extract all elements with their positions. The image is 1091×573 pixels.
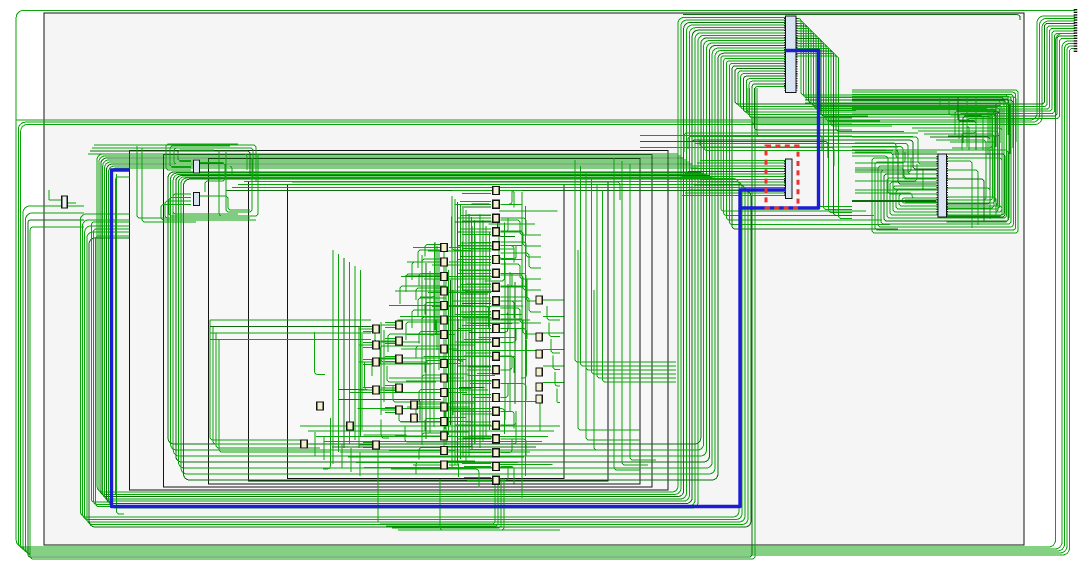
cell instance A5	[493, 242, 499, 250]
cell instance F5	[536, 383, 542, 391]
wire bundle right cluster extra rings	[886, 150, 1008, 222]
cell instance T3 (left edge)	[62, 196, 68, 208]
cell instance A20	[493, 449, 499, 457]
wire bundle cluster column stubs	[389, 188, 526, 484]
cell instance A14	[493, 366, 499, 374]
wire left edge vertical net	[117, 174, 125, 514]
cell instance A3	[493, 214, 499, 222]
wire bundle fan to cluster bridges	[684, 88, 918, 152]
cell instance B7	[441, 331, 447, 339]
module level-5 boundary	[249, 182, 609, 482]
wire bundle right cluster left feeds	[852, 137, 937, 194]
wire bundle below cluster drops	[378, 445, 560, 530]
cell instance A9	[493, 297, 499, 305]
wire right of blue vertical	[115, 177, 129, 495]
cell instance B8	[441, 345, 447, 353]
cell instance B13	[441, 418, 447, 426]
wire tiny cell stubs	[49, 190, 76, 203]
cell instance A7	[493, 269, 499, 277]
cell instance B3	[441, 273, 447, 281]
cell instance D4	[373, 386, 379, 394]
cell instance F6	[536, 395, 542, 403]
cell instance B16	[441, 461, 447, 469]
cell instance A2	[493, 200, 499, 208]
wire bundle colA right rail	[501, 191, 526, 499]
wire bundle cluster mid web	[372, 220, 541, 376]
cell instance A4	[493, 228, 499, 236]
cell instance A19	[493, 435, 499, 443]
cell instance B12	[441, 403, 447, 411]
module level-4 boundary	[209, 159, 641, 485]
wire bundle cluster right exits	[543, 158, 676, 470]
cell instance B6	[441, 316, 447, 324]
cell instance B1	[441, 244, 447, 252]
cell instance C5	[396, 406, 402, 414]
cell instance A15	[493, 380, 499, 388]
cell instance A10	[493, 311, 499, 319]
cell instance B5	[441, 302, 447, 310]
cell instance B11	[441, 389, 447, 397]
cell instance D2	[373, 341, 379, 349]
wire bundle right cluster to pads	[955, 31, 1075, 147]
cell instance T2	[194, 193, 200, 206]
highlighted net (blue) branch A	[740, 51, 819, 209]
cell instance A16	[493, 394, 499, 402]
wire bundle cluster left trunk	[333, 250, 361, 456]
module level-3 boundary	[164, 155, 653, 488]
wire dark top edge net	[683, 15, 1020, 20]
wire bundle right cluster left texture	[855, 143, 937, 198]
wire bundle mini-cluster long loops	[80, 179, 751, 528]
wire bundle cluster inter-column links	[375, 222, 497, 442]
wire bundle cluster left exits	[210, 320, 371, 452]
cell instance B14	[441, 432, 447, 440]
wire bundle mini cluster cell T1 wires	[166, 144, 238, 192]
cell instance B10	[441, 374, 447, 382]
cell instance T1	[194, 160, 200, 173]
wire bundle right cluster onion rings	[852, 90, 1018, 233]
cell instance C4	[396, 384, 402, 392]
RAM block bar U1	[785, 16, 797, 93]
cell instance A22	[493, 476, 499, 484]
cell instance A13	[493, 352, 499, 360]
cell instance A11	[493, 325, 499, 333]
wire bundle left strip stubs	[91, 222, 129, 507]
wire right cluster heavy net	[852, 200, 936, 202]
module level-2 boundary	[130, 151, 669, 491]
wire bundle mini cluster top rows	[88, 145, 256, 182]
cell instance B9	[441, 360, 447, 368]
cell instance G3	[301, 440, 307, 448]
wire bundle bar3 right fan	[947, 161, 1003, 228]
cell instance F4	[536, 368, 542, 376]
wire bundle cluster top ladder rungs	[424, 188, 491, 321]
cell instance F2	[536, 333, 542, 341]
cell instance A1	[493, 187, 499, 195]
cell instance G2	[317, 402, 323, 410]
cell instance G1	[347, 422, 353, 430]
wire bundle cluster bottom fan	[300, 426, 560, 476]
cell instance D1	[373, 325, 379, 333]
wire bundle cluster core fill	[444, 204, 557, 464]
cell instance B2	[441, 258, 447, 266]
I/O pad pins right edge	[1074, 9, 1078, 53]
wire bundle cluster trunk verticals	[422, 196, 515, 468]
wire bundle bar2 left pin nets	[640, 136, 834, 196]
cell instance C1	[396, 321, 402, 329]
cell instance C2	[396, 337, 402, 345]
module level-6 boundary	[288, 185, 565, 479]
wire bundle cluster edge hug lines	[292, 182, 620, 200]
cell instance A8	[493, 283, 499, 291]
cell instance B15	[441, 447, 447, 455]
RAM block bar U3	[937, 154, 947, 217]
wire bundle cluster cross links	[315, 217, 543, 488]
cell instance D3	[373, 358, 379, 366]
cell instance E1	[411, 401, 417, 409]
wire bundle bar1 right fan	[796, 19, 1008, 219]
cell instance A6	[493, 256, 499, 264]
cell instance A18	[493, 421, 499, 429]
cell instance F1	[536, 296, 542, 304]
cell instance B4	[441, 287, 447, 295]
selection box (red dashed)	[766, 146, 798, 208]
cell instance F3	[536, 350, 542, 358]
cell instance A17	[493, 407, 499, 415]
wire bundle right cluster pyramid corners	[940, 97, 990, 150]
cell instance A21	[493, 463, 499, 471]
wire band net 1	[16, 16, 1075, 120]
cell instance A12	[493, 338, 499, 346]
wire bundle colC colD rungs and rails	[359, 322, 396, 448]
cell instance E2	[411, 414, 417, 422]
highlighted net (blue) branch B	[112, 170, 741, 507]
wire bundle colB left rail	[435, 242, 439, 370]
wire bundle upper band extra nets	[805, 97, 1016, 154]
wire bundle mini cluster cell T2 wires	[161, 194, 256, 220]
wire bundle right cluster inner rings	[912, 128, 1002, 216]
RAM block bar U2 (selected)	[785, 159, 792, 199]
cell instance D5	[373, 441, 379, 449]
wire bundle mini cluster verticals	[137, 146, 258, 222]
cell instance C3	[396, 355, 402, 363]
